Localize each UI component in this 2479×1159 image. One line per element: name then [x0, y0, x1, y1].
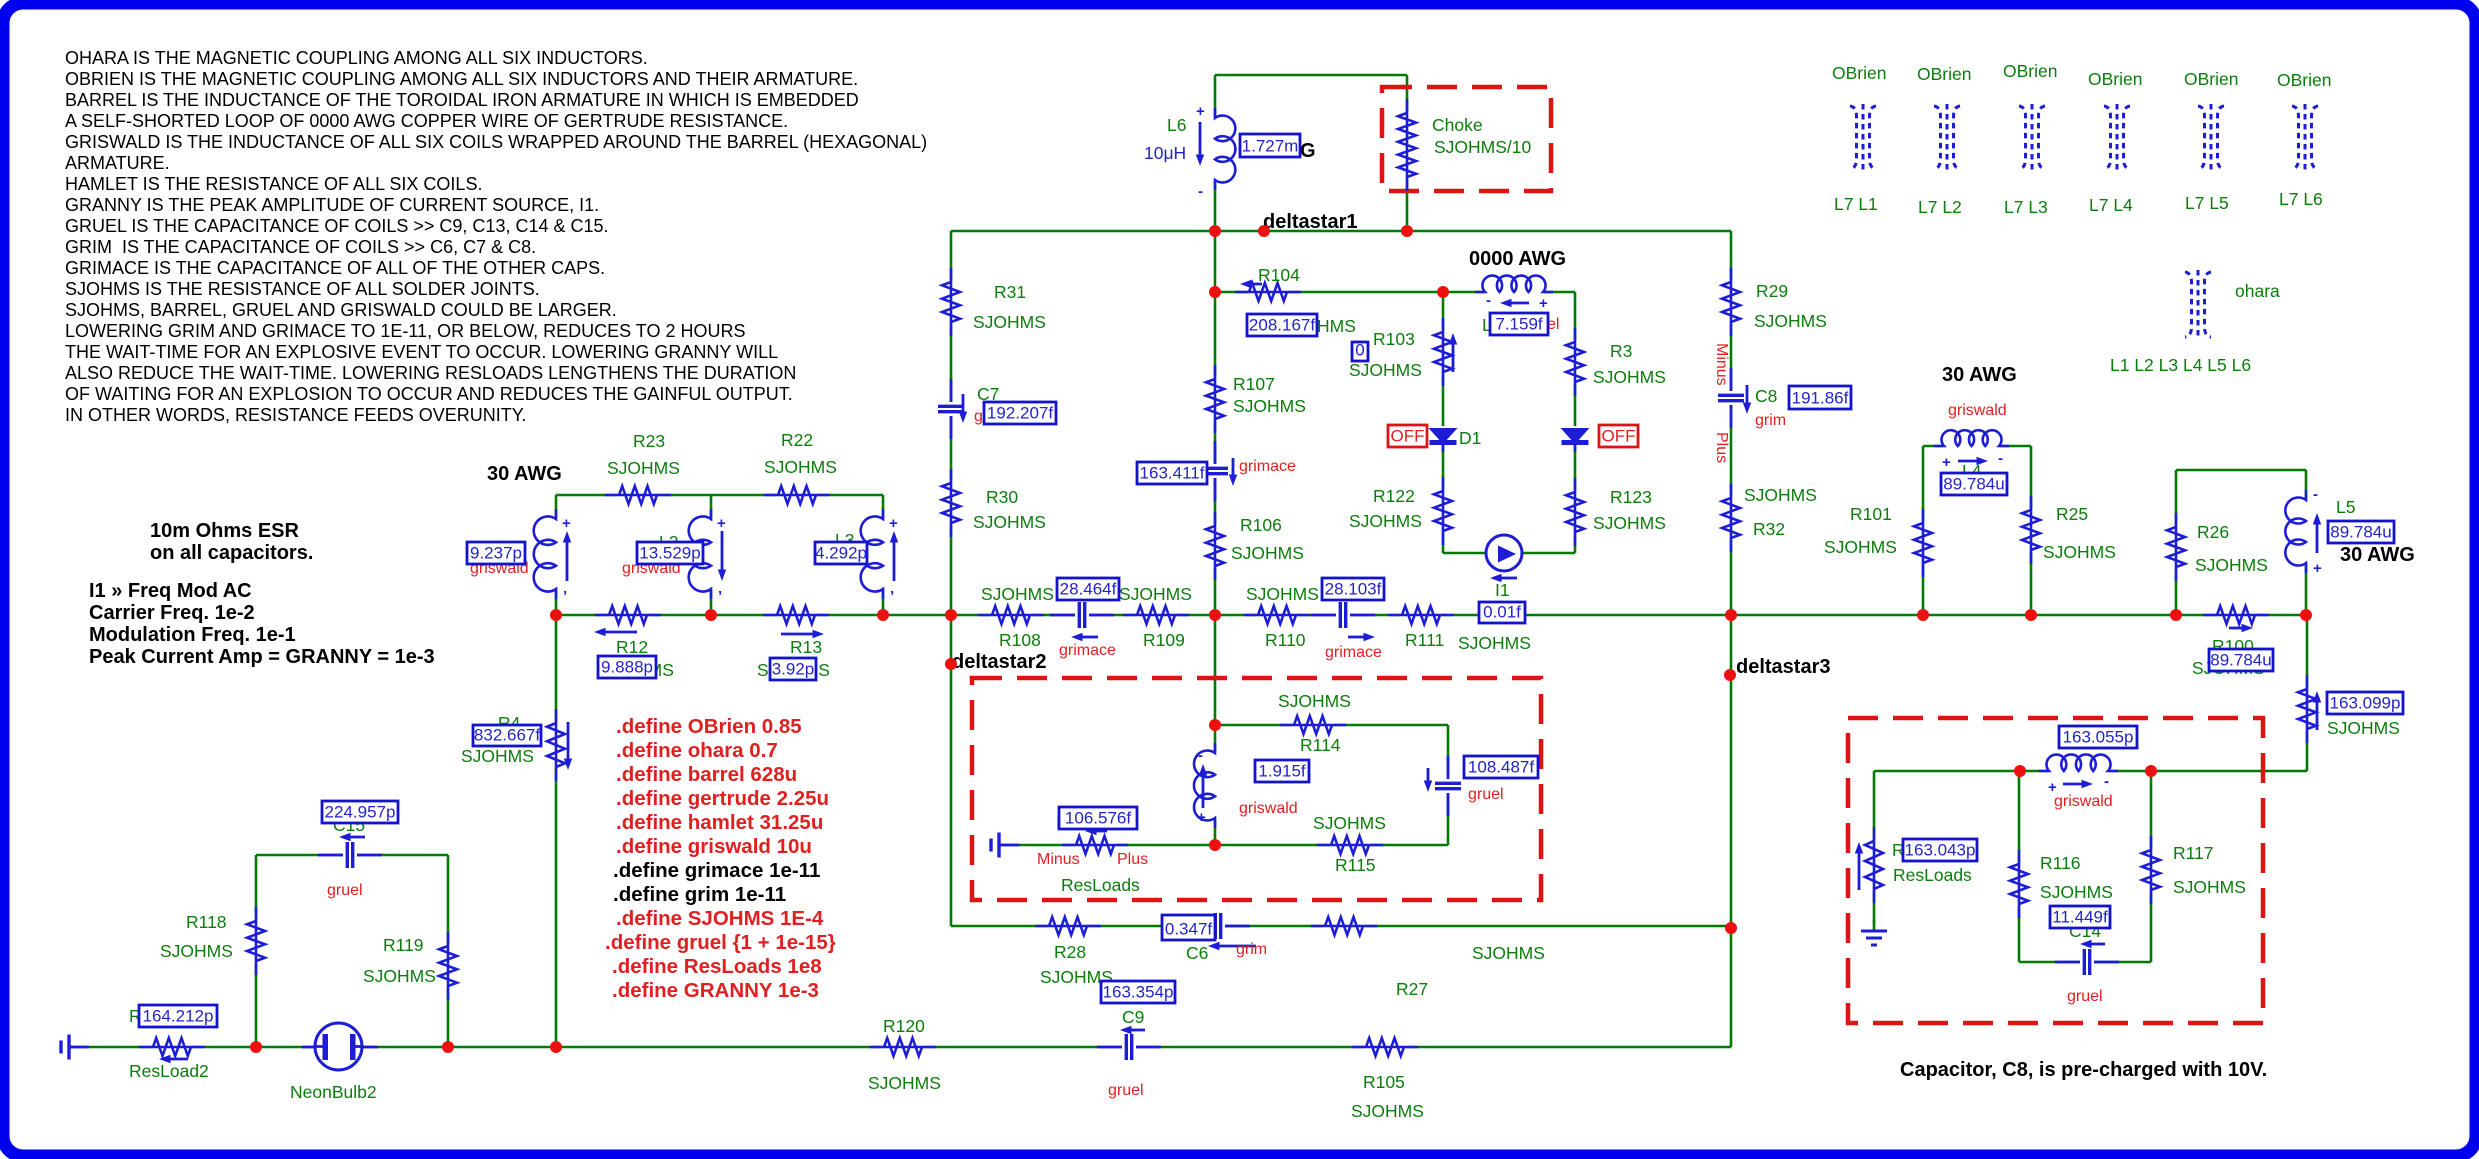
resistor R32: [1720, 484, 1742, 552]
svg-text:106.576f: 106.576f: [1065, 809, 1131, 828]
resistor R3: [1564, 328, 1586, 396]
svg-text:30 AWG: 30 AWG: [2340, 544, 2415, 566]
svg-text:SJOHMS: SJOHMS: [607, 458, 680, 478]
wire: [1443, 552, 1575, 555]
svg-text:GRANNY IS THE PEAK AMPLITUDE O: GRANNY IS THE PEAK AMPLITUDE OF CURRENT …: [65, 195, 599, 215]
svg-text:9.888p: 9.888p: [601, 658, 653, 677]
wire: [1442, 292, 1445, 553]
svg-text:0.347f: 0.347f: [1165, 920, 1213, 939]
ground: [1861, 920, 1887, 945]
svg-text:.define GRANNY 1e-3: .define GRANNY 1e-3: [612, 979, 819, 1002]
wire: [2306, 615, 2309, 771]
wire: [998, 844, 1448, 847]
capacitor C14: [2055, 940, 2119, 977]
svg-text:Plus: Plus: [1713, 432, 1730, 463]
resistor R108: [978, 604, 1044, 626]
svg-text:832.667f: 832.667f: [474, 726, 540, 745]
resistor R116: [2008, 850, 2030, 918]
resistor R22: [764, 484, 830, 506]
svg-text:SJOHMS: SJOHMS: [764, 457, 837, 477]
svg-text:4.292p: 4.292p: [815, 544, 867, 563]
coupling K OBrien 2: [1934, 104, 1960, 171]
svg-text:R116: R116: [2040, 853, 2081, 873]
svg-text:L1 L2 L3 L4 L5 L6: L1 L2 L3 L4 L5 L6: [2110, 355, 2251, 375]
svg-text:HAMLET IS THE RESISTANCE OF AL: HAMLET IS THE RESISTANCE OF ALL SIX COIL…: [65, 174, 482, 194]
svg-text:.define hamlet 31.25u: .define hamlet 31.25u: [616, 811, 823, 834]
resistor R26: [2165, 513, 2187, 581]
wire: [1215, 724, 1448, 727]
capacitor C10: [1200, 441, 1237, 501]
resistor R25: [2020, 496, 2042, 564]
wire: [1873, 771, 1876, 924]
wire: [1730, 615, 1733, 1047]
resistor R119: [437, 932, 459, 1000]
resistor R105: [1352, 1036, 1418, 1058]
resistor R13: [763, 604, 829, 638]
svg-text:13.529p: 13.529p: [639, 544, 700, 563]
resistor R12: [594, 604, 661, 636]
svg-text:OBrien: OBrien: [2088, 69, 2142, 89]
resistor R118: [245, 907, 267, 975]
inductor L3: [861, 509, 899, 605]
resistor R107: [1204, 365, 1226, 433]
wire: [2018, 771, 2021, 962]
svg-text:OBrien: OBrien: [2277, 70, 2331, 90]
svg-text:ARMATURE.: ARMATURE.: [65, 153, 170, 173]
svg-text:+: +: [562, 515, 571, 532]
svg-text:.define griswald 10u: .define griswald 10u: [616, 835, 812, 858]
define directives block: [605, 715, 836, 1002]
svg-text:0.01f: 0.01f: [1483, 603, 1521, 622]
svg-text:ResLoad2: ResLoad2: [129, 1061, 209, 1081]
svg-text:deltastar1: deltastar1: [1263, 211, 1358, 233]
svg-text:ResLoads: ResLoads: [1061, 875, 1140, 895]
svg-text:A SELF-SHORTED LOOP OF 0000 AW: A SELF-SHORTED LOOP OF 0000 AWG COPPER W…: [65, 111, 788, 131]
svg-text:.define SJOHMS 1E-4: .define SJOHMS 1E-4: [616, 907, 824, 930]
svg-text:R28: R28: [1054, 942, 1086, 962]
svg-text:7.159f: 7.159f: [1495, 315, 1543, 334]
svg-text:deltastar2: deltastar2: [952, 651, 1047, 673]
svg-text:9.237p: 9.237p: [470, 544, 522, 563]
svg-text:108.487f: 108.487f: [1468, 758, 1534, 777]
red parameter labels: [327, 316, 2113, 1099]
resistor R100: [2203, 604, 2269, 632]
svg-text:I1 » Freq Mod AC: I1 » Freq Mod AC: [89, 580, 252, 602]
resistor R31: [940, 268, 962, 336]
svg-text:SJOHMS: SJOHMS: [1233, 396, 1306, 416]
svg-text:R101: R101: [1850, 504, 1892, 524]
svg-text:R27: R27: [1396, 979, 1428, 999]
svg-text:SJOHMS: SJOHMS: [1349, 511, 1422, 531]
battery source bottom-left: [61, 1035, 89, 1060]
resistor R122: [1432, 477, 1454, 545]
svg-text:R32: R32: [1753, 519, 1785, 539]
svg-text:gruel: gruel: [1108, 1082, 1144, 1099]
svg-text:GRIM IS THE CAPACITANCE OF CO: GRIM IS THE CAPACITANCE OF COILS >> C6, …: [65, 237, 536, 257]
neon bulb NeonBulb2: [302, 1023, 378, 1070]
svg-text:Minus: Minus: [1037, 851, 1080, 868]
svg-text:SJOHMS: SJOHMS: [1593, 367, 1666, 387]
svg-text:SJOHMS: SJOHMS: [973, 512, 1046, 532]
resistor R123: [1564, 478, 1586, 546]
resistor R109: [1123, 604, 1189, 626]
battery source ResLoad1: [991, 833, 1019, 858]
svg-text:1.915f: 1.915f: [1258, 762, 1306, 781]
svg-text:L6: L6: [1167, 115, 1186, 135]
wire: [447, 855, 450, 1047]
junction: [1401, 225, 1413, 237]
svg-text:OFF: OFF: [1602, 427, 1636, 446]
svg-text:R12: R12: [616, 637, 648, 657]
svg-text:L7 L5: L7 L5: [2185, 193, 2229, 213]
svg-text:SJOHMS: SJOHMS: [461, 746, 534, 766]
junction: [1209, 225, 1221, 237]
svg-text:.define gruel {1 + 1e-15}: .define gruel {1 + 1e-15}: [605, 931, 836, 954]
svg-text:224.957p: 224.957p: [325, 803, 396, 822]
svg-text:SJOHMS: SJOHMS: [2040, 882, 2113, 902]
svg-text:164.212p: 164.212p: [143, 1007, 214, 1026]
coupling K ohara: [2185, 270, 2211, 339]
svg-text:.define grimace 1e-11: .define grimace 1e-11: [613, 859, 820, 882]
node labels: [487, 140, 2415, 678]
svg-text:89.784u: 89.784u: [2330, 523, 2391, 542]
annotation box ResLoads deltastar2: [972, 678, 1541, 900]
svg-text:R3: R3: [1610, 341, 1632, 361]
wire: [69, 1046, 1731, 1049]
svg-text:gruel: gruel: [1468, 786, 1504, 803]
svg-text:griswald: griswald: [1948, 402, 2007, 419]
resistor ResLoad2: [139, 1036, 205, 1063]
svg-text:BARREL IS THE INDUCTANCE OF TH: BARREL IS THE INDUCTANCE OF THE TOROIDAL…: [65, 90, 859, 110]
wire: [555, 495, 558, 615]
svg-text:.define ResLoads 1e8: .define ResLoads 1e8: [612, 955, 822, 978]
svg-text:89.784u: 89.784u: [1943, 475, 2004, 494]
svg-text:10μH: 10μH: [1144, 143, 1186, 163]
svg-text:R26: R26: [2197, 522, 2229, 542]
note I1 Freq Mod: [89, 580, 435, 668]
svg-text:SJOHMS: SJOHMS: [1458, 633, 1531, 653]
diode D1: [1427, 426, 1459, 452]
junction: [1209, 609, 1221, 621]
svg-text:163.099p: 163.099p: [2330, 694, 2401, 713]
svg-text:’: ’: [563, 588, 567, 605]
svg-text:163.354p: 163.354p: [1103, 983, 1174, 1002]
svg-text:R111: R111: [1405, 630, 1444, 650]
svg-text:on all capacitors.: on all capacitors.: [150, 542, 313, 564]
OFF state boxes: [1388, 425, 1638, 447]
capacitor grimace B: [1311, 600, 1375, 641]
junction: [1209, 839, 1221, 851]
svg-text:+: +: [1197, 809, 1206, 826]
wire: [256, 854, 448, 857]
junction: [705, 609, 717, 621]
svg-text:Minus: Minus: [1713, 343, 1730, 386]
svg-text:R25: R25: [2056, 504, 2088, 524]
svg-text:SJOHMS: SJOHMS: [1593, 513, 1666, 533]
junction: [2014, 765, 2026, 777]
svg-text:-: -: [2104, 773, 2109, 790]
svg-text:SJOHMS: SJOHMS: [2043, 542, 2116, 562]
wire: [1923, 445, 2031, 448]
junction: [1725, 609, 1737, 621]
wire: [1406, 75, 1409, 231]
resistor R111: [1388, 604, 1454, 626]
junction: [2145, 765, 2157, 777]
wire: [882, 495, 885, 615]
capacitor C7: [936, 379, 967, 439]
junction: [2170, 609, 2182, 621]
resistor R4: [545, 709, 572, 781]
resistor R23: [605, 484, 671, 506]
svg-text:SJOHMS: SJOHMS: [1119, 584, 1192, 604]
svg-text:SJOHMS: SJOHMS: [1754, 311, 1827, 331]
wire: [2019, 961, 2151, 964]
wire: [556, 494, 883, 497]
svg-text:-: -: [1198, 183, 1203, 200]
resistor R110: [1244, 604, 1310, 626]
inductor L2: [689, 509, 727, 605]
svg-text:SJOHMS: SJOHMS: [1472, 943, 1545, 963]
wire: [1214, 231, 1217, 615]
svg-text:GRIMACE IS THE CAPACITANCE OF: GRIMACE IS THE CAPACITANCE OF ALL OF THE…: [65, 258, 605, 278]
svg-text:OBRIEN IS THE MAGNETIC COUPLIN: OBRIEN IS THE MAGNETIC COUPLING AMONG AL…: [65, 69, 858, 89]
svg-text:gruel: gruel: [2067, 988, 2103, 1005]
junction: [2300, 609, 2312, 621]
svg-text:-: -: [2313, 486, 2318, 503]
svg-text:Plus: Plus: [1117, 851, 1148, 868]
junction: [945, 658, 957, 670]
resistor R103: [1432, 318, 1457, 386]
svg-text:R114: R114: [1300, 735, 1341, 755]
svg-text:ALSO REDUCE THE WAIT-TIME. LOW: ALSO REDUCE THE WAIT-TIME. LOWERING RESL…: [65, 363, 796, 383]
svg-text:.define ohara 0.7: .define ohara 0.7: [616, 739, 778, 762]
svg-text:R120: R120: [883, 1016, 925, 1036]
svg-text:SJOHMS: SJOHMS: [1231, 543, 1304, 563]
svg-text:L7 L2: L7 L2: [1918, 197, 1962, 217]
svg-text:SJOHMS: SJOHMS: [2327, 718, 2400, 738]
junction: [442, 1041, 454, 1053]
svg-text:’: ’: [890, 588, 894, 605]
svg-text:SJOHMS: SJOHMS: [2195, 555, 2268, 575]
resistor R27: [1311, 915, 1377, 937]
svg-text:-: -: [1198, 747, 1203, 764]
wire: [1447, 725, 1450, 845]
svg-text:1.727m: 1.727m: [1242, 137, 1299, 156]
resistor R117: [2140, 836, 2162, 904]
junction: [1209, 719, 1221, 731]
current source I1: [1486, 535, 1522, 582]
note Capacitor C8 pre-charged: [1900, 1059, 2267, 1081]
svg-text:192.207f: 192.207f: [987, 404, 1053, 423]
wire: [1214, 75, 1217, 231]
resistor R30: [940, 469, 962, 537]
wire: [1215, 291, 1575, 294]
svg-text:deltastar3: deltastar3: [1736, 656, 1831, 678]
coupling K OBrien 6: [2292, 104, 2318, 171]
svg-text:grim: grim: [1236, 941, 1267, 958]
svg-text:R123: R123: [1610, 487, 1652, 507]
wire: [2030, 446, 2033, 615]
svg-text:SJOHMS: SJOHMS: [1246, 584, 1319, 604]
wire: [2150, 771, 2153, 962]
svg-text:C6: C6: [1186, 943, 1208, 963]
svg-text:OBrien: OBrien: [1832, 63, 1886, 83]
capacitor C8: [1716, 368, 1751, 428]
svg-text:Peak Current Amp = GRANNY = 1e: Peak Current Amp = GRANNY = 1e-3: [89, 646, 435, 668]
svg-text:IN OTHER WORDS, RESISTANCE FEE: IN OTHER WORDS, RESISTANCE FEEDS OVERUNI…: [65, 405, 526, 425]
svg-text:R117: R117: [2173, 843, 2214, 863]
svg-text:D1: D1: [1459, 428, 1481, 448]
svg-text:R108: R108: [999, 630, 1041, 650]
svg-text:R103: R103: [1373, 329, 1415, 349]
annotation box Choke: [1382, 87, 1551, 191]
svg-text:SJOHMS: SJOHMS: [981, 584, 1054, 604]
svg-text:L7 L3: L7 L3: [2004, 197, 2048, 217]
capacitor C9: [1097, 1026, 1161, 1062]
annotation box deltastar3 loads: [1848, 718, 2263, 1023]
resistor R106: [1204, 512, 1226, 580]
svg-text:OBrien: OBrien: [2184, 69, 2238, 89]
svg-text:Modulation Freq. 1e-1: Modulation Freq. 1e-1: [89, 624, 296, 646]
junction: [1437, 286, 1449, 298]
capacitor C13: [1424, 756, 1463, 816]
svg-text:’: ’: [718, 588, 722, 605]
svg-text:R22: R22: [781, 430, 813, 450]
svg-text:10m Ohms ESR: 10m Ohms ESR: [150, 520, 300, 542]
wire: [2175, 470, 2178, 615]
note text block: [65, 48, 927, 425]
svg-text:11.449f: 11.449f: [2052, 908, 2108, 927]
svg-text:Choke: Choke: [1432, 115, 1483, 135]
label 10uH: [1144, 143, 1186, 163]
svg-text:I1: I1: [1495, 580, 1510, 600]
inductor L13 griswald: [1194, 743, 1218, 828]
svg-text:0000 AWG: 0000 AWG: [1469, 248, 1566, 270]
junction: [250, 1041, 262, 1053]
inductor L14 griswald: [2039, 754, 2118, 796]
resistor R102: [2296, 675, 2321, 743]
svg-text:.define OBrien 0.85: .define OBrien 0.85: [616, 715, 802, 738]
svg-text:R29: R29: [1756, 281, 1788, 301]
svg-text:griswald: griswald: [1239, 800, 1298, 817]
wire: [555, 615, 558, 1047]
svg-text:R110: R110: [1265, 630, 1306, 650]
resistor R104: [1235, 280, 1301, 303]
svg-text:-: -: [1998, 450, 2003, 467]
junction: [945, 609, 957, 621]
svg-text:163.411f: 163.411f: [1140, 464, 1205, 483]
wire: [1214, 615, 1217, 845]
svg-text:grimace: grimace: [1059, 642, 1116, 659]
coupling K OBrien 3: [2019, 104, 2045, 171]
svg-text:-: -: [1486, 292, 1491, 309]
coupling K OBrien 4: [2104, 104, 2130, 171]
svg-text:SJOHMS: SJOHMS: [363, 966, 436, 986]
svg-text:THE WAIT-TIME FOR AN EXPLOSIVE: THE WAIT-TIME FOR AN EXPLOSIVE EVENT TO …: [65, 342, 778, 362]
wire: [710, 495, 713, 615]
capacitor grimace A: [1050, 600, 1114, 641]
svg-text:grimace: grimace: [1325, 644, 1382, 661]
resistor ResLoads: [1855, 827, 1885, 903]
svg-text:R109: R109: [1143, 630, 1185, 650]
svg-text:.define grim 1e-11: .define grim 1e-11: [613, 883, 786, 906]
capacitor C6: [1186, 911, 1256, 950]
svg-text:+: +: [889, 515, 898, 532]
junction: [550, 1041, 562, 1053]
svg-text:SJOHMS: SJOHMS: [868, 1073, 941, 1093]
svg-text:30 AWG: 30 AWG: [487, 463, 562, 485]
OBrien labels: [1832, 61, 2331, 217]
svg-text:+: +: [1196, 103, 1205, 120]
resistor R115: [1317, 834, 1383, 856]
svg-text:C9: C9: [1122, 1007, 1144, 1027]
green designator labels: [129, 115, 2400, 1121]
junction: [1917, 609, 1929, 621]
svg-text:3.92p: 3.92p: [772, 660, 815, 679]
svg-text:C8: C8: [1755, 386, 1777, 406]
svg-text:ResLoads: ResLoads: [1893, 865, 1972, 885]
svg-text:L7 L6: L7 L6: [2279, 189, 2323, 209]
svg-text:L7 L4: L7 L4: [2089, 195, 2133, 215]
svg-text:+: +: [1539, 295, 1548, 312]
svg-text:OBrien: OBrien: [2003, 61, 2057, 81]
svg-text:R13: R13: [790, 637, 822, 657]
junction: [1725, 922, 1737, 934]
svg-text:GRUEL IS THE CAPACITANCE OF CO: GRUEL IS THE CAPACITANCE OF COILS >> C9,…: [65, 216, 609, 236]
resistor R101: [1912, 509, 1934, 577]
svg-text:SJOHMS: SJOHMS: [1349, 360, 1422, 380]
svg-text:G: G: [1300, 140, 1316, 162]
svg-text:OF WAITING FOR AN EXPLOSION TO: OF WAITING FOR AN EXPLOSION TO OCCUR AND…: [65, 384, 793, 404]
wire: [950, 231, 953, 615]
junction: [1258, 225, 1270, 237]
wire: [1874, 770, 2307, 773]
wire: [951, 230, 1731, 233]
svg-text:grim: grim: [1755, 412, 1786, 429]
svg-text:R107: R107: [1233, 374, 1275, 394]
resistor R120: [870, 1036, 936, 1058]
svg-text:30 AWG: 30 AWG: [1942, 364, 2017, 386]
svg-text:Capacitor, C8, is pre-charged: Capacitor, C8, is pre-charged with 10V.: [1900, 1059, 2267, 1081]
svg-text:208.167f: 208.167f: [1249, 316, 1315, 335]
capacitor C15: [318, 833, 382, 870]
coupling K OBrien 1: [1850, 104, 1876, 171]
svg-text:28.464f: 28.464f: [1060, 580, 1117, 599]
svg-text:gruel: gruel: [327, 882, 363, 899]
svg-text:R23: R23: [633, 431, 665, 451]
coupling K OBrien 5: [2198, 104, 2224, 171]
resistor R29: [1720, 268, 1742, 336]
svg-text:+: +: [1942, 454, 1951, 471]
wire: [951, 925, 1731, 928]
svg-text:R104: R104: [1258, 265, 1300, 285]
svg-text:.define gertrude 2.25u: .define gertrude 2.25u: [616, 787, 829, 810]
svg-text:R122: R122: [1373, 486, 1415, 506]
svg-text:SJOHMS: SJOHMS: [2173, 877, 2246, 897]
svg-text:Carrier Freq. 1e-2: Carrier Freq. 1e-2: [89, 602, 255, 624]
svg-text:SJOHMS: SJOHMS: [1313, 813, 1386, 833]
value boxes: [139, 134, 2403, 1027]
svg-text:+: +: [2313, 560, 2322, 577]
wire: [255, 855, 258, 1047]
wire: [1574, 292, 1577, 553]
svg-text:SJOHMS/10: SJOHMS/10: [1434, 137, 1532, 157]
junction: [1209, 286, 1221, 298]
svg-text:R118: R118: [186, 912, 227, 932]
wire: [2176, 469, 2306, 472]
svg-text:OBrien: OBrien: [1917, 64, 1971, 84]
svg-text:89.784u: 89.784u: [2210, 651, 2271, 670]
